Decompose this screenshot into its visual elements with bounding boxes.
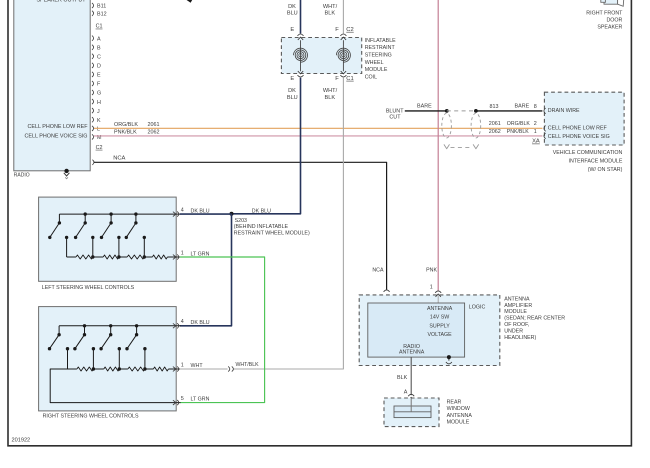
coil L2 spiral right bbox=[336, 48, 350, 62]
svg-text:VOLTAGE: VOLTAGE bbox=[427, 332, 452, 338]
left controls resistor R4 bbox=[152, 255, 167, 259]
svg-text:D: D bbox=[97, 64, 101, 70]
svg-text:DK: DK bbox=[288, 4, 296, 10]
svg-text:WHT/BLK: WHT/BLK bbox=[236, 362, 260, 368]
wire ORG/BLK 2061 (radio L to VCIM 2) bbox=[94, 127, 542, 129]
svg-text:HEADLINER): HEADLINER) bbox=[504, 335, 536, 341]
svg-text:2062: 2062 bbox=[148, 130, 160, 136]
radio pin B bbox=[92, 45, 94, 50]
right front door speaker SPKR (icon, clipped) bbox=[604, 0, 618, 4]
svg-text:L: L bbox=[97, 127, 100, 133]
wire BLK (antenna amp to rear window antenna module) bbox=[410, 357, 412, 395]
svg-text:PNK: PNK bbox=[426, 267, 437, 273]
svg-text:8: 8 bbox=[534, 104, 537, 110]
wire WHT (right controls pin 1) bbox=[180, 368, 228, 370]
svg-text:XA: XA bbox=[532, 139, 540, 145]
svg-text:B11: B11 bbox=[97, 4, 106, 10]
svg-text:CELL PHONE VOICE SIG: CELL PHONE VOICE SIG bbox=[24, 134, 87, 140]
left controls ladder wire segment bbox=[119, 256, 127, 258]
svg-text:PNK/BLK: PNK/BLK bbox=[114, 130, 137, 136]
right controls enclosure box bbox=[39, 307, 177, 411]
radio pin J bbox=[92, 108, 94, 113]
svg-text:DOOR: DOOR bbox=[606, 17, 622, 23]
left controls switch S2 bbox=[74, 212, 87, 239]
svg-text:2062: 2062 bbox=[489, 129, 501, 135]
svg-text:SUPPLY: SUPPLY bbox=[429, 323, 450, 329]
svg-text:BLK: BLK bbox=[325, 95, 336, 101]
wire continuation arrow (top edge) bbox=[187, 0, 193, 3]
svg-text:813: 813 bbox=[490, 104, 499, 110]
wire DK BLU vertical (coil bottom to S203) bbox=[232, 78, 301, 214]
svg-text:PNK/BLK: PNK/BLK bbox=[507, 129, 529, 135]
right controls pin 4 bbox=[173, 323, 176, 328]
svg-text:UNDER: UNDER bbox=[504, 329, 523, 335]
svg-text:BLK: BLK bbox=[325, 11, 336, 17]
wire PNK (to antenna amplifier pin 1) bbox=[437, 0, 439, 291]
svg-text:MODULE: MODULE bbox=[504, 309, 527, 315]
svg-text:WHT: WHT bbox=[191, 363, 204, 369]
shield drain junction left bbox=[445, 109, 449, 113]
svg-text:S203: S203 bbox=[235, 218, 247, 224]
left controls ladder junction bbox=[117, 255, 120, 258]
right controls ladder wire segment bbox=[119, 368, 128, 370]
left controls resistor R1 bbox=[76, 255, 93, 259]
right controls contact stub 4 bbox=[143, 347, 146, 369]
svg-text:5: 5 bbox=[181, 396, 184, 402]
svg-text:ORG/BLK: ORG/BLK bbox=[114, 122, 138, 128]
svg-text:C1: C1 bbox=[96, 24, 103, 30]
svg-text:AMPLIFIER: AMPLIFIER bbox=[504, 303, 532, 309]
svg-text:C1: C1 bbox=[346, 76, 353, 82]
svg-text:REAR: REAR bbox=[447, 399, 462, 405]
svg-text:NCA: NCA bbox=[372, 267, 384, 273]
svg-text:(BEHIND INFLATABLE: (BEHIND INFLATABLE bbox=[234, 224, 289, 230]
left controls ladder junction bbox=[91, 255, 94, 258]
svg-text:SPEAKER: SPEAKER bbox=[597, 24, 622, 30]
radio pin F bbox=[92, 81, 94, 86]
right controls resistor R1 bbox=[77, 367, 94, 371]
svg-text:ANTENNA: ANTENNA bbox=[447, 413, 473, 419]
radio pin A bbox=[92, 36, 94, 41]
svg-text:MODULE: MODULE bbox=[447, 420, 470, 426]
right controls ladder junction bbox=[92, 367, 95, 370]
coil pin E bottom bbox=[298, 75, 304, 77]
left controls switch S3 bbox=[100, 212, 113, 239]
svg-text:DK BLU: DK BLU bbox=[252, 208, 271, 214]
svg-text:LT GRN: LT GRN bbox=[191, 397, 210, 403]
svg-text:DK BLU: DK BLU bbox=[191, 320, 210, 326]
left controls resistor R2 bbox=[103, 255, 119, 259]
radio pin L bbox=[92, 126, 94, 131]
left controls enclosure box bbox=[39, 197, 177, 281]
wire DK BLU (S203 down to right controls) bbox=[180, 214, 232, 326]
svg-text:WHT/: WHT/ bbox=[323, 88, 338, 94]
wire PNK/BLK 2062 (radio M to VCIM 1) bbox=[94, 135, 542, 137]
svg-text:201922: 201922 bbox=[12, 438, 31, 444]
wire WHT/BLK vertical (radio to coil top) bbox=[342, 0, 344, 34]
radio pin E bbox=[92, 72, 94, 77]
svg-text:RESTRAINT: RESTRAINT bbox=[365, 45, 396, 51]
svg-text:ORG/BLK: ORG/BLK bbox=[507, 121, 531, 127]
antenna element bbox=[394, 406, 431, 418]
coil pin E top bbox=[298, 34, 304, 36]
left controls contact stub 1 bbox=[65, 236, 68, 257]
left controls pin 1 bbox=[173, 255, 176, 260]
svg-text:RIGHT STEERING WHEEL CONTROLS: RIGHT STEERING WHEEL CONTROLS bbox=[43, 413, 139, 419]
radio pin NCA bracket bbox=[92, 160, 94, 165]
svg-text:CELL PHONE LOW REF: CELL PHONE LOW REF bbox=[548, 125, 608, 131]
splice S203 bbox=[230, 212, 234, 216]
svg-text:BLK: BLK bbox=[397, 375, 408, 381]
svg-text:E: E bbox=[97, 73, 101, 79]
radio pin M bbox=[92, 134, 94, 139]
svg-text:1: 1 bbox=[430, 284, 433, 290]
right controls ladder wire segment bbox=[93, 368, 103, 370]
svg-text:C: C bbox=[97, 55, 101, 61]
svg-text:1: 1 bbox=[534, 129, 537, 135]
svg-text:BLU: BLU bbox=[287, 95, 298, 101]
svg-text:14V SW: 14V SW bbox=[430, 315, 449, 321]
coil pin F top bbox=[340, 34, 346, 36]
svg-text:E: E bbox=[290, 27, 294, 33]
svg-text:B: B bbox=[97, 46, 101, 52]
antenna amp pin (NCA) bbox=[384, 290, 390, 292]
wire LT GRN (left controls pin 1 to right controls pin 5) bbox=[180, 257, 265, 403]
shield chevron right bbox=[473, 144, 479, 148]
svg-text:E: E bbox=[290, 76, 294, 82]
right controls resistor R2 bbox=[104, 367, 120, 371]
svg-text:WINDOW: WINDOW bbox=[447, 406, 470, 412]
coil internal wire right bbox=[342, 40, 344, 71]
antenna amp pin 1 bbox=[435, 291, 441, 293]
svg-text:J: J bbox=[97, 109, 100, 115]
wire DK BLU (left controls pin 4 to S203) bbox=[180, 213, 232, 215]
right controls resistor R4 bbox=[153, 367, 168, 371]
svg-text:C2: C2 bbox=[346, 27, 353, 33]
svg-text:BARE: BARE bbox=[515, 104, 530, 110]
shield symbol left ellipse bbox=[442, 113, 452, 138]
svg-text:F: F bbox=[335, 27, 339, 33]
rear window antenna module (box) bbox=[384, 398, 439, 427]
right controls ladder junction bbox=[143, 367, 146, 370]
radio pin B11 bbox=[92, 3, 94, 8]
radio pin C bbox=[92, 54, 94, 59]
svg-text:COIL: COIL bbox=[365, 75, 377, 81]
radio pin H bbox=[92, 99, 94, 104]
radio pin G bbox=[92, 90, 94, 95]
right controls switch S3 bbox=[99, 324, 112, 350]
svg-text:ANTENNA: ANTENNA bbox=[427, 306, 453, 312]
right controls switch S2 bbox=[73, 324, 86, 350]
svg-text:A: A bbox=[404, 389, 408, 395]
svg-text:NCA: NCA bbox=[113, 156, 125, 162]
svg-text:LT GRN: LT GRN bbox=[191, 251, 210, 257]
svg-text:ANTENNA: ANTENNA bbox=[399, 350, 425, 356]
radio U1 (box) bbox=[14, 0, 90, 171]
svg-text:F: F bbox=[335, 76, 339, 82]
svg-text:2061: 2061 bbox=[148, 122, 160, 128]
svg-text:4: 4 bbox=[181, 208, 184, 214]
svg-text:A: A bbox=[97, 36, 101, 42]
left controls ladder output wire bbox=[167, 256, 180, 258]
svg-text:WHT/: WHT/ bbox=[323, 4, 338, 10]
shield dashed bottom link bbox=[451, 147, 473, 149]
left controls contact stub 3 bbox=[117, 236, 120, 257]
antenna amp inner block bbox=[368, 303, 465, 357]
antenna amplifier module (outer box) bbox=[359, 295, 500, 366]
coil L1 spiral left bbox=[294, 48, 308, 62]
svg-text:(W/ ON STAR): (W/ ON STAR) bbox=[588, 167, 623, 173]
VCIM pin 2 bbox=[544, 126, 546, 132]
svg-text:ANTENNA: ANTENNA bbox=[504, 296, 530, 302]
svg-text:4: 4 bbox=[181, 319, 184, 325]
svg-text:VEHICLE COMMUNICATION: VEHICLE COMMUNICATION bbox=[553, 150, 623, 156]
svg-text:INTERFACE MODULE: INTERFACE MODULE bbox=[569, 159, 623, 165]
svg-text:B12: B12 bbox=[97, 12, 107, 18]
svg-text:1: 1 bbox=[181, 251, 184, 257]
svg-text:2061: 2061 bbox=[489, 121, 501, 127]
svg-text:WHEEL: WHEEL bbox=[365, 60, 384, 66]
svg-text:(SEDAN; REAR CENTER: (SEDAN; REAR CENTER bbox=[504, 316, 565, 322]
inline connector in WHT wire bbox=[228, 366, 230, 371]
svg-text:2: 2 bbox=[534, 121, 537, 127]
right controls contact stub 1 bbox=[66, 347, 69, 369]
VCIM pin 1 bbox=[544, 133, 546, 139]
VCIM pin 8 bbox=[544, 108, 546, 114]
shield drain junction right bbox=[474, 109, 478, 113]
svg-text:K: K bbox=[97, 118, 101, 124]
left controls ladder wire segment bbox=[93, 256, 103, 258]
svg-text:G: G bbox=[97, 91, 101, 97]
inflatable restraint steering wheel module coil (box) bbox=[281, 38, 361, 74]
left controls switch S1 bbox=[48, 214, 61, 239]
coil internal wire left bbox=[300, 40, 302, 71]
right controls ladder output wire bbox=[168, 368, 180, 370]
left controls contact stub 4 bbox=[143, 236, 146, 257]
svg-text:LEFT STEERING WHEEL CONTROLS: LEFT STEERING WHEEL CONTROLS bbox=[42, 285, 135, 291]
right controls switch S1 bbox=[48, 326, 61, 351]
wire WHT/BLK vertical (coil bottom to steering controls) bbox=[233, 78, 343, 369]
svg-text:RESTRAINT WHEEL MODULE): RESTRAINT WHEEL MODULE) bbox=[234, 231, 310, 237]
svg-text:1: 1 bbox=[181, 362, 184, 368]
svg-text:RIGHT FRONT: RIGHT FRONT bbox=[586, 10, 623, 16]
svg-text:DK: DK bbox=[288, 88, 296, 94]
svg-text:BARE: BARE bbox=[417, 104, 432, 110]
svg-text:CELL PHONE LOW REF: CELL PHONE LOW REF bbox=[27, 124, 88, 130]
svg-text:CUT: CUT bbox=[389, 114, 401, 120]
vehicle communication interface module (box) bbox=[544, 92, 624, 145]
svg-text:LOGIC: LOGIC bbox=[469, 304, 486, 310]
svg-text:MODULE: MODULE bbox=[365, 67, 388, 73]
svg-text:DRAIN WIRE: DRAIN WIRE bbox=[548, 108, 580, 114]
antenna amp internal junction bbox=[447, 355, 451, 359]
shield chevron left bbox=[444, 144, 450, 148]
right controls return wire to pin 5 bbox=[50, 369, 180, 403]
svg-text:RADIO: RADIO bbox=[14, 172, 30, 178]
right controls switch S4 bbox=[125, 324, 138, 350]
left controls ladder wire segment bbox=[144, 256, 152, 258]
svg-text:SPEAKER OUTPUT: SPEAKER OUTPUT bbox=[36, 0, 86, 4]
right controls contact stub 3 bbox=[118, 347, 121, 369]
wire NCA (radio to antenna amplifier) bbox=[94, 162, 387, 289]
svg-text:BLU: BLU bbox=[287, 11, 298, 17]
shield symbol right ellipse bbox=[471, 113, 481, 138]
coil pin F bottom bbox=[340, 75, 346, 77]
left controls switch S4 bbox=[125, 212, 138, 239]
dashed drain link bbox=[447, 110, 476, 112]
right controls resistor R3 bbox=[128, 367, 145, 371]
right controls contact stub 2 bbox=[92, 347, 95, 369]
right controls pin 1 bbox=[173, 367, 176, 372]
svg-text:INFLATABLE: INFLATABLE bbox=[365, 38, 396, 44]
svg-text:DK BLU: DK BLU bbox=[191, 209, 210, 215]
svg-text:CELL PHONE VOICE SIG: CELL PHONE VOICE SIG bbox=[548, 134, 610, 140]
svg-text:H: H bbox=[97, 100, 101, 106]
radio pin D bbox=[92, 63, 94, 68]
svg-text:OF ROOF,: OF ROOF, bbox=[504, 322, 529, 328]
right controls pin 5 bbox=[173, 400, 176, 405]
left controls contact stub 2 bbox=[91, 236, 94, 257]
svg-text:STEERING: STEERING bbox=[365, 53, 392, 59]
left controls ladder wire bbox=[67, 256, 76, 258]
radio pin K bbox=[92, 117, 94, 122]
svg-text:C2: C2 bbox=[96, 145, 103, 151]
radio pin B12 bbox=[92, 11, 94, 16]
right controls ladder wire segment bbox=[145, 368, 154, 370]
radio case ground pin bbox=[64, 169, 68, 173]
left controls common rail wire bbox=[59, 213, 180, 215]
left controls ladder junction bbox=[143, 255, 146, 258]
left controls resistor R3 bbox=[127, 255, 144, 259]
wire DK BLU vertical (radio to coil top) bbox=[300, 0, 302, 34]
left controls pin 4 bbox=[173, 212, 176, 217]
right controls ladder junction bbox=[118, 367, 121, 370]
right controls common rail wire bbox=[59, 325, 181, 327]
